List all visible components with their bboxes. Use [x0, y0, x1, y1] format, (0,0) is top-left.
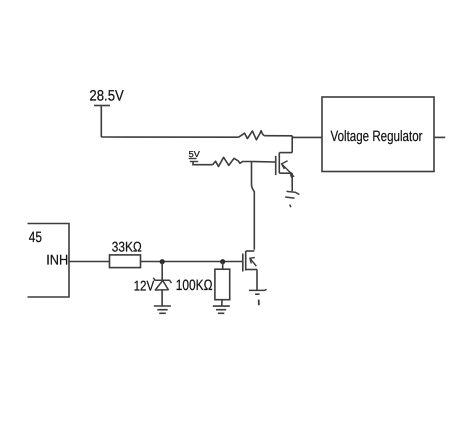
wire 28.5V horizontal rail: [101, 136, 238, 138]
svg-text:33KΩ: 33KΩ: [112, 238, 142, 254]
ground (below R2): [213, 306, 230, 313]
net label 28.5V: [89, 88, 123, 105]
resistor R4 (series, 5V to gate): [213, 157, 245, 166]
ground (below D1): [154, 306, 171, 313]
voltage regulator U1 box: [322, 97, 434, 172]
wire node D to R2: [222, 262, 224, 270]
wire Q2 source down to ground: [256, 270, 258, 291]
wire INH pin to R1: [69, 261, 110, 263]
resistor R3 (series, 28.5V rail): [239, 131, 265, 140]
wire R1 to Q2 gate: [141, 261, 243, 263]
svg-text:12V: 12V: [134, 277, 155, 293]
wire regulator output stub: [434, 136, 445, 138]
ground (sketchy, below Q2): [249, 289, 267, 305]
wire zener D1 to ground: [161, 290, 163, 306]
ground (sketchy, below Q1): [285, 191, 299, 207]
power terminal 5V: [189, 159, 199, 162]
wire R4 to node B and Q1 gate: [244, 161, 275, 164]
wire node B down to Q2 drain: [252, 162, 255, 250]
pin number 45: [29, 229, 42, 246]
resistor R1 value 33KΩ: [112, 238, 142, 254]
zener diode D1 value 12V: [134, 277, 155, 293]
power terminal 28.5V: [94, 105, 110, 107]
svg-text:100KΩ: 100KΩ: [176, 277, 213, 294]
zener diode D1: [153, 278, 171, 290]
wire resistor to node A: [264, 135, 292, 137]
svg-text:INH: INH: [46, 252, 68, 268]
wire 5V terminal to resistor R4: [193, 162, 213, 165]
svg-text:28.5V: 28.5V: [89, 88, 123, 105]
svg-text:45: 45: [29, 229, 42, 246]
wire 28.5V vertical drop: [100, 106, 102, 138]
node A junction step: [291, 136, 294, 138]
wire node C to zener D1: [161, 262, 163, 281]
wire node A down to Q1 drain: [291, 136, 293, 152]
pin name INH: [46, 252, 68, 268]
transistor Q1 (PMOS): [276, 153, 294, 178]
resistor R2 (box style, vertical): [215, 269, 230, 300]
voltage regulator U1 label: [331, 128, 423, 145]
node C junction dot: [160, 259, 165, 264]
resistor R1 (box style): [110, 255, 141, 268]
transistor Q2 (NMOS): [243, 251, 257, 272]
net label 5V: [189, 149, 201, 159]
IC U2 box (pin 45): [28, 224, 70, 298]
svg-text:Voltage Regulator: Voltage Regulator: [331, 128, 423, 145]
node D junction dot: [220, 259, 225, 264]
wire Q1 source down to ground: [291, 173, 293, 191]
wire node A to regulator input: [293, 136, 322, 138]
svg-text:5V: 5V: [189, 149, 201, 159]
resistor R2 value 100KΩ: [176, 277, 213, 294]
wire R2 to ground: [221, 300, 223, 306]
